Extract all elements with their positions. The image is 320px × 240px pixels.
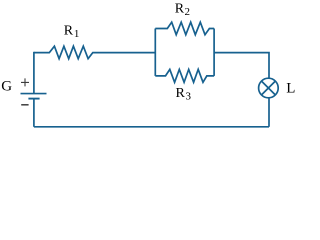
battery minus sign (21, 104, 28, 106)
battery G negative plate (28, 98, 39, 100)
lamp X stroke 1 (262, 81, 276, 95)
wire: bottom return wire (34, 126, 269, 128)
resistor R2 top branch (155, 22, 214, 35)
svg-text:R1: R1 (64, 23, 80, 40)
node A: parallel block left vertical (154, 29, 156, 76)
resistor R3 bottom branch (155, 69, 214, 82)
battery G positive plate (21, 93, 47, 95)
wire: top-left vertical from battery to top wire (33, 52, 35, 94)
lamp X stroke 2 (262, 81, 276, 95)
wire: battery bottom to bottom wire (33, 99, 35, 127)
wire: lamp bottom to bottom wire (268, 98, 270, 127)
resistor R1 (34, 46, 155, 59)
svg-text:G: G (1, 79, 12, 95)
node B: parallel block right vertical (213, 29, 215, 76)
svg-text:R2: R2 (175, 2, 190, 19)
svg-text:L: L (286, 81, 295, 97)
svg-text:R3: R3 (176, 86, 192, 103)
wire: block to lamp top (214, 53, 269, 79)
battery plus sign (21, 78, 29, 86)
lamp L circle (259, 78, 279, 98)
